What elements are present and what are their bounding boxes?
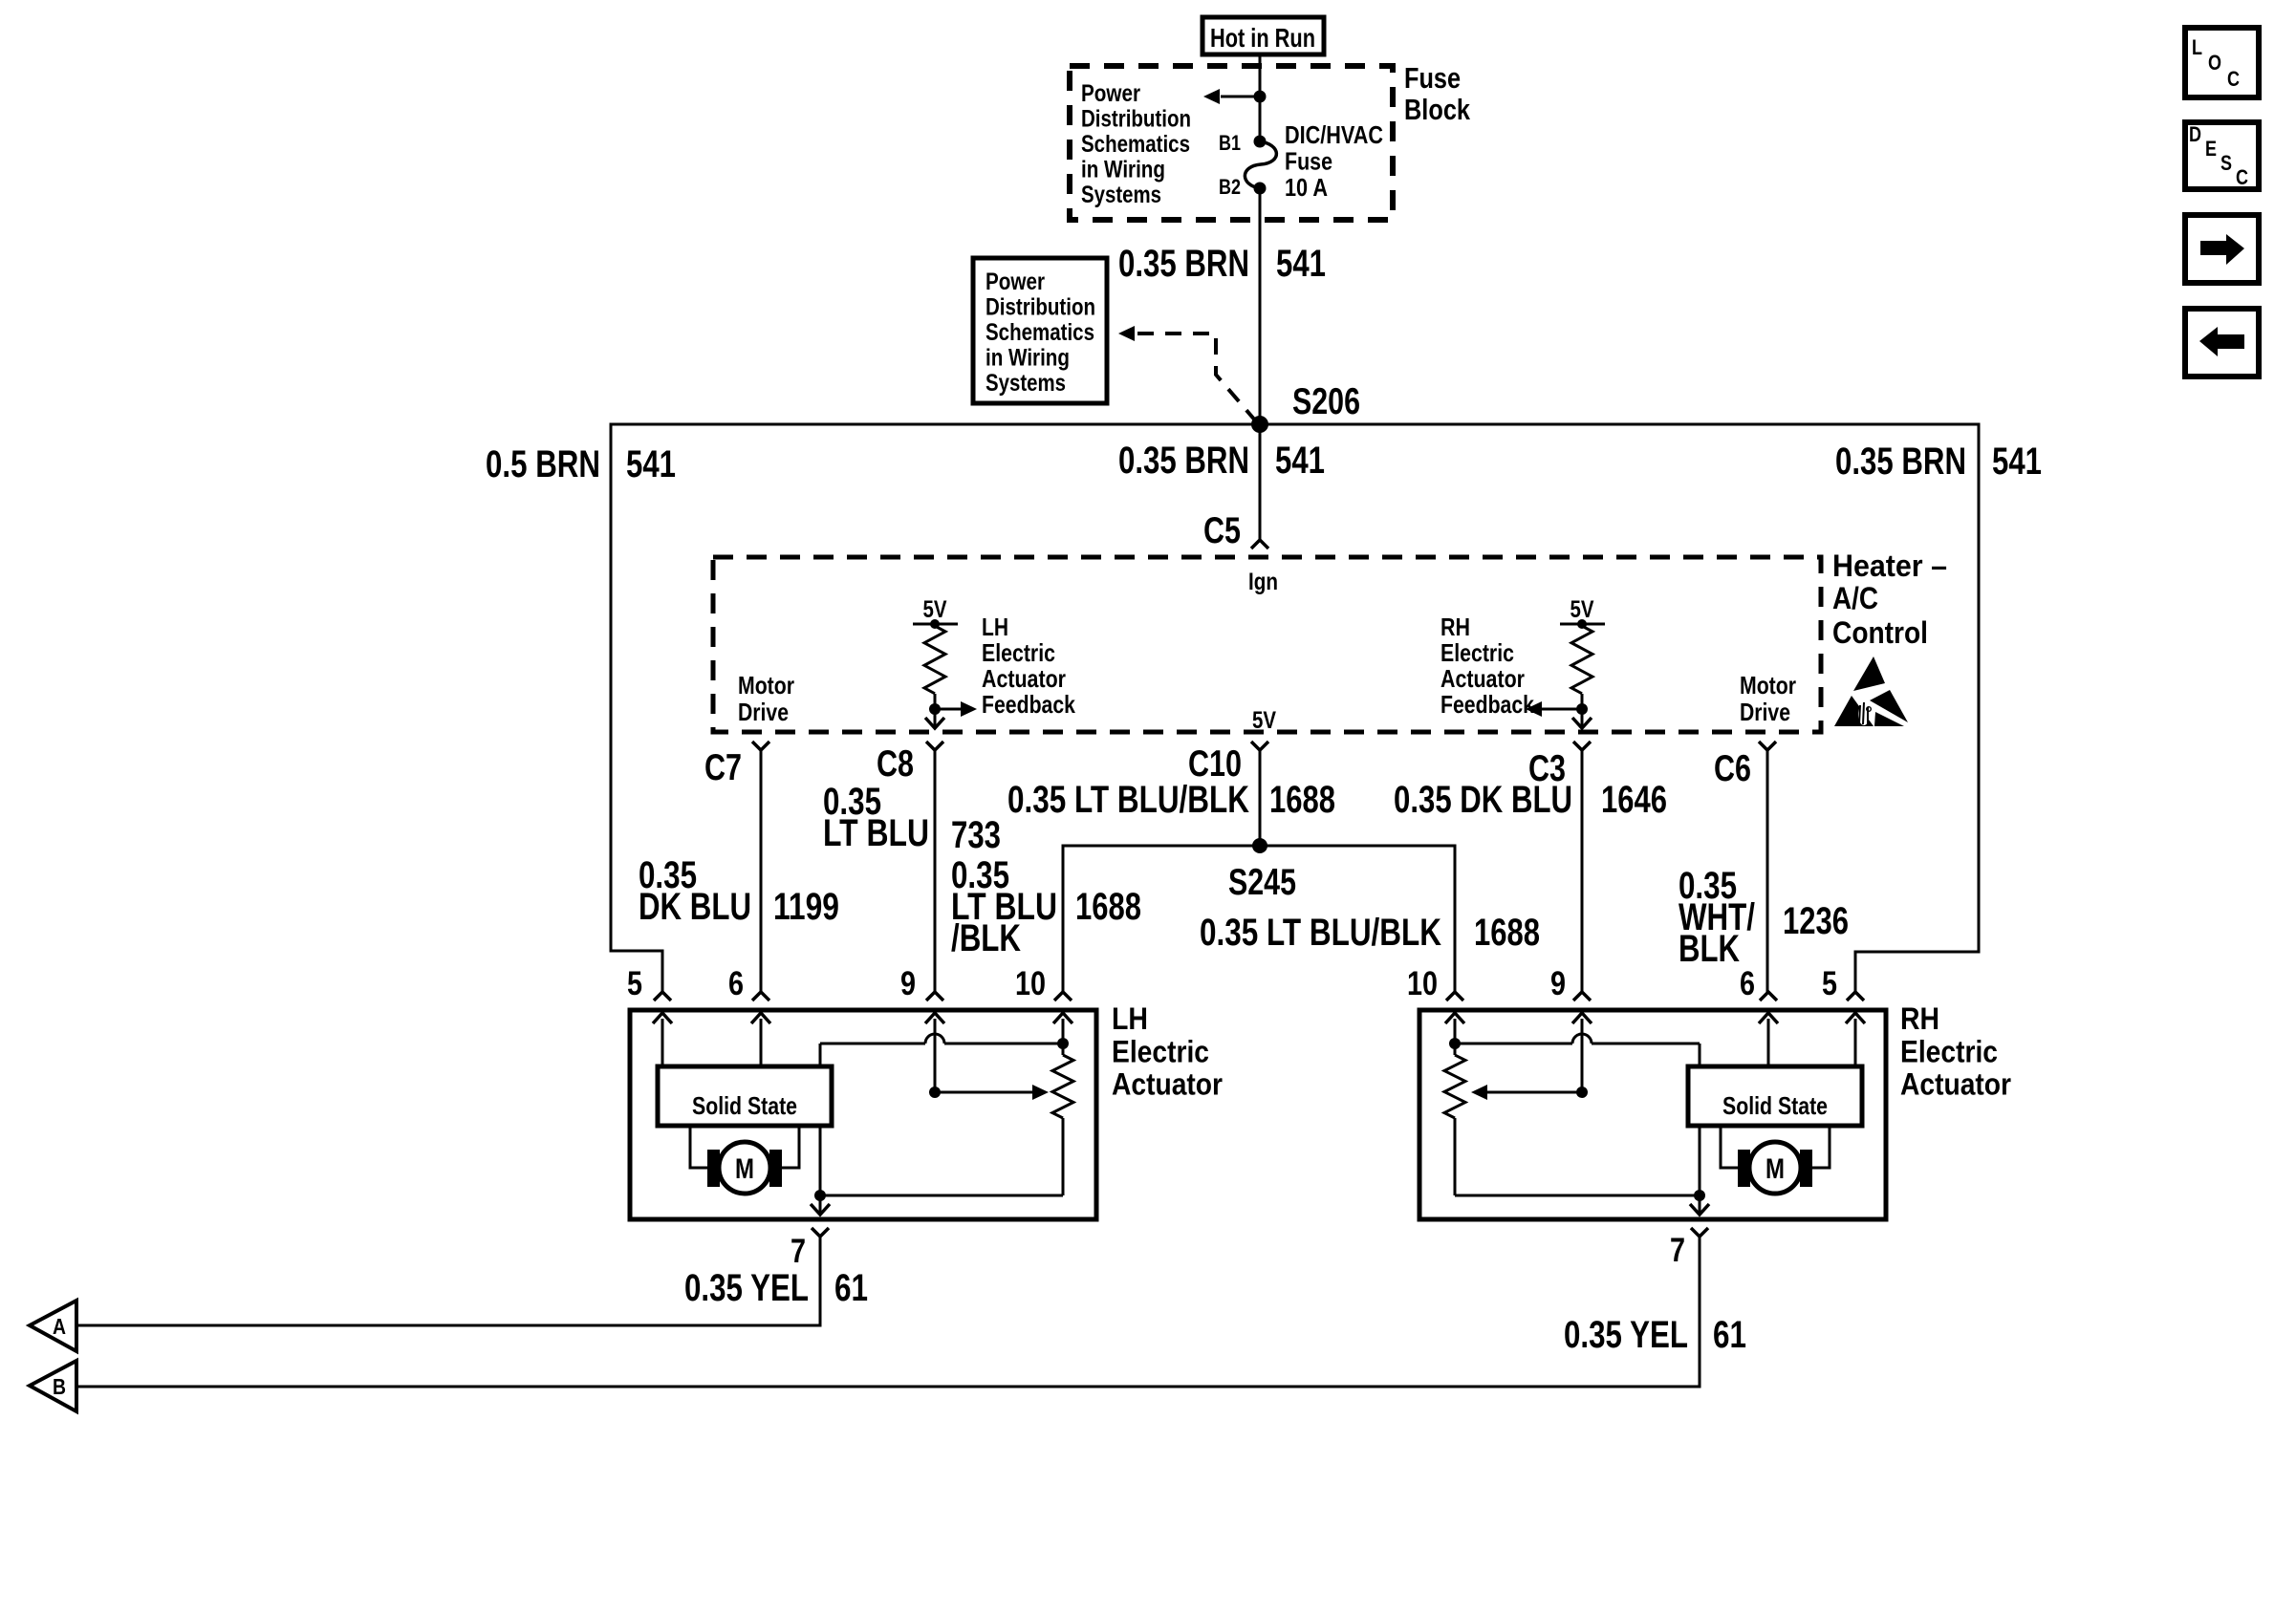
- svg-text:Solid State: Solid State: [1722, 1091, 1828, 1120]
- Solid State box LH: [658, 1066, 832, 1126]
- pin 9 chevron at x1655: [1573, 992, 1591, 1001]
- junction + arrow RH feedback: [1526, 701, 1588, 717]
- svg-text:Feedback: Feedback: [1440, 690, 1534, 719]
- wire pin10 link to solid state LH: [820, 1034, 1069, 1066]
- nav icon LOC: [2185, 28, 2259, 97]
- fuse block dashed outline: [1070, 66, 1393, 220]
- svg-text:in Wiring: in Wiring: [986, 345, 1070, 372]
- svg-text:Drive: Drive: [738, 698, 789, 726]
- svg-text:0.35 LT BLU/BLK: 0.35 LT BLU/BLK: [1007, 779, 1249, 821]
- svg-text:B1: B1: [1219, 131, 1241, 155]
- circuit number 541 (center): [1275, 440, 1325, 482]
- wire solid state to motor LH left: [690, 1126, 707, 1168]
- pin number 9 label: [1550, 965, 1566, 1002]
- label RH Electric Actuator: [1900, 1001, 2011, 1102]
- svg-text:1236: 1236: [1783, 900, 1849, 942]
- svg-text:6: 6: [728, 965, 744, 1002]
- label LH Electric Actuator Feedback: [982, 613, 1075, 719]
- svg-text:61: 61: [1713, 1314, 1746, 1356]
- svg-text:S245: S245: [1228, 862, 1296, 903]
- circuit number 1646: [1601, 779, 1667, 821]
- wire Hot in Run to fuse block: [1259, 54, 1262, 141]
- fuse DIC/HVAC 10A: [1245, 120, 1383, 202]
- circuit number 541 (left): [626, 443, 676, 485]
- wire label 0.35 BRN: [1118, 243, 1249, 285]
- resistor LH position sensor: [1052, 1044, 1073, 1195]
- motor M RH: [1738, 1142, 1812, 1194]
- svg-text:C: C: [2227, 67, 2240, 91]
- arrow into pin 10 RH (to resistor): [1445, 1013, 1464, 1044]
- wire solid state to motor RH left: [1721, 1126, 1738, 1168]
- svg-text:C: C: [2236, 165, 2248, 189]
- svg-text:Distribution: Distribution: [1081, 106, 1191, 133]
- pin 9 chevron at x978: [926, 992, 943, 1001]
- svg-text:Schematics: Schematics: [1081, 131, 1190, 158]
- circuit number 1199: [773, 886, 839, 928]
- svg-text:E: E: [2205, 137, 2217, 161]
- RH Electric Actuator box: [1419, 1010, 1886, 1219]
- pin number 10 label: [1015, 965, 1046, 1002]
- svg-text:1688: 1688: [1474, 912, 1540, 954]
- wire to power distribution with arrow: [1203, 89, 1267, 104]
- svg-text:541: 541: [1276, 243, 1326, 285]
- wire C7 to pin 6 (0.35 DK BLU 1199): [760, 750, 763, 992]
- svg-text:in Wiring: in Wiring: [1081, 157, 1165, 183]
- svg-text:10 A: 10 A: [1285, 173, 1328, 202]
- splice S206: [1251, 416, 1268, 433]
- svg-text:DIC/HVAC: DIC/HVAC: [1285, 120, 1383, 149]
- pin B1: [1219, 131, 1267, 155]
- nav icon previous page: [2185, 309, 2259, 377]
- svg-text:S: S: [2220, 151, 2232, 175]
- svg-text:9: 9: [1550, 965, 1566, 1002]
- svg-text:Ign: Ign: [1248, 569, 1278, 595]
- power feed label Hot in Run: [1202, 17, 1324, 54]
- pin number 7 RH: [1670, 1232, 1685, 1269]
- svg-text:5V: 5V: [1570, 596, 1594, 623]
- wire label 0.35 LT BLU/BLK (pin10 RH): [1200, 912, 1441, 954]
- arrow into pin 6 RH: [1759, 1013, 1778, 1066]
- svg-text:Electric: Electric: [1112, 1034, 1209, 1068]
- connector B: [30, 1361, 76, 1411]
- circuit number 61 (LH): [834, 1267, 868, 1309]
- connector C7: [704, 742, 769, 788]
- circuit number 541 (right): [1992, 441, 2042, 483]
- splice S245: [1252, 838, 1267, 853]
- pin 10 chevron at x1112: [1054, 992, 1072, 1001]
- svg-text:LH: LH: [982, 613, 1008, 641]
- wire label 0.5 BRN: [486, 443, 600, 485]
- Solid State box RH: [1688, 1066, 1862, 1126]
- circuit number 1688 (pin10 LH): [1075, 886, 1141, 928]
- svg-text:Fuse: Fuse: [1404, 61, 1461, 95]
- arrow into pin 9 RH (to wiper): [1572, 1013, 1592, 1092]
- svg-text:61: 61: [834, 1267, 868, 1309]
- svg-text:0.35 BRN: 0.35 BRN: [1118, 440, 1249, 482]
- svg-text:0.35 YEL: 0.35 YEL: [1564, 1314, 1688, 1356]
- wire LH feedback to C8: [925, 709, 944, 728]
- svg-text:Control: Control: [1832, 615, 1928, 650]
- wire motor return RH: [1455, 1126, 1705, 1201]
- pin number 9 label: [900, 965, 916, 1002]
- 5V supply bar LH: [913, 619, 958, 629]
- svg-text:Feedback: Feedback: [982, 690, 1075, 719]
- label 5V (RH feedback): [1570, 596, 1594, 623]
- wire label 0.35 DK BLU (pin6 LH): [639, 854, 751, 928]
- pin number 5 label: [1822, 965, 1837, 1002]
- wire label 0.35 LT BLU/BLK (pin10 LH): [951, 854, 1057, 959]
- junction + arrow LH feedback: [929, 701, 977, 717]
- svg-text:/BLK: /BLK: [951, 917, 1021, 959]
- arrow into pin 5 LH: [653, 1013, 672, 1066]
- LH Electric Actuator box: [630, 1010, 1096, 1219]
- label Heater - A/C Control: [1832, 549, 1947, 650]
- svg-text:Heater –: Heater –: [1832, 549, 1947, 583]
- pin 7 chevron LH: [812, 1228, 829, 1237]
- svg-text:Power: Power: [986, 269, 1045, 295]
- svg-text:Block: Block: [1404, 93, 1471, 126]
- svg-text:Actuator: Actuator: [1112, 1067, 1223, 1102]
- svg-text:Actuator: Actuator: [982, 664, 1066, 693]
- wire 0.35 BRN 541 right branch: [1260, 424, 1979, 992]
- svg-text:Systems: Systems: [986, 370, 1066, 397]
- svg-text:1646: 1646: [1601, 779, 1667, 821]
- arrow into pin 5 RH: [1846, 1013, 1865, 1066]
- wire label 0.35 BRN (right): [1835, 441, 1966, 483]
- svg-text:M: M: [1765, 1153, 1785, 1185]
- svg-text:541: 541: [626, 443, 676, 485]
- pin number 7 LH: [791, 1233, 806, 1270]
- connector A: [30, 1301, 76, 1351]
- arrow into pin 10 LH (to resistor): [1053, 1013, 1072, 1044]
- wire 0.5 BRN 541 left branch: [611, 424, 1260, 992]
- wire solid state to motor RH right: [1812, 1126, 1830, 1168]
- svg-text:5V: 5V: [923, 596, 947, 623]
- svg-text:1688: 1688: [1269, 779, 1335, 821]
- svg-text:0.35 BRN: 0.35 BRN: [1835, 441, 1966, 483]
- wiper arrow RH: [1471, 1085, 1588, 1100]
- svg-text:C5: C5: [1203, 510, 1241, 551]
- pin label Ign: [1248, 569, 1278, 595]
- svg-text:Systems: Systems: [1081, 182, 1161, 208]
- pin number 6 label: [1740, 965, 1755, 1002]
- svg-text:Schematics: Schematics: [986, 319, 1094, 346]
- svg-text:Solid State: Solid State: [692, 1091, 797, 1120]
- circuit number 1688 (pin10 RH): [1474, 912, 1540, 954]
- svg-text:DK BLU: DK BLU: [639, 886, 751, 928]
- note power distribution schematics in wiring systems (fuse block): [1081, 80, 1191, 208]
- connector C6: [1714, 742, 1776, 789]
- svg-text:6: 6: [1740, 965, 1755, 1002]
- circuit number 733: [951, 814, 1001, 856]
- svg-text:LH: LH: [1112, 1001, 1148, 1036]
- pin 10 chevron at x1522: [1446, 992, 1463, 1001]
- label Motor Drive LH: [738, 671, 794, 726]
- svg-text:541: 541: [1992, 441, 2042, 483]
- svg-text:7: 7: [1670, 1232, 1685, 1269]
- svg-text:Electric: Electric: [1440, 638, 1514, 667]
- wire C8 to pin 9 (0.35 LT BLU 733): [934, 750, 937, 992]
- svg-text:B: B: [53, 1374, 66, 1399]
- svg-text:733: 733: [951, 814, 1001, 856]
- svg-text:9: 9: [900, 965, 916, 1002]
- ESD sensitive device symbol: [1834, 656, 1908, 726]
- svg-text:7: 7: [791, 1233, 806, 1270]
- svg-text:B2: B2: [1219, 175, 1241, 199]
- wire C6 to pin 6 RH (0.35 WHT/BLK 1236): [1766, 750, 1769, 992]
- label S206: [1292, 381, 1360, 422]
- svg-text:Hot in Run: Hot in Run: [1210, 23, 1315, 53]
- pin 6 chevron at x796: [752, 992, 769, 1001]
- wire motor return LH: [814, 1126, 1063, 1201]
- wire S245 bus to RH pin 10: [1260, 846, 1455, 992]
- svg-text:0.35 YEL: 0.35 YEL: [684, 1267, 809, 1309]
- arrow out pin 7 LH: [811, 1195, 830, 1215]
- svg-text:S206: S206: [1292, 381, 1360, 422]
- svg-text:5: 5: [627, 965, 642, 1002]
- arrow into pin 9 LH (to wiper): [925, 1013, 944, 1092]
- wire C10 to S245: [1259, 750, 1262, 846]
- pin label 5V (C10): [1252, 707, 1276, 734]
- svg-text:541: 541: [1275, 440, 1325, 482]
- svg-text:C7: C7: [704, 747, 742, 788]
- svg-text:Fuse: Fuse: [1285, 147, 1332, 176]
- wire 0.35 YEL 61 (LH) to A: [77, 1237, 820, 1325]
- svg-text:5: 5: [1822, 965, 1837, 1002]
- resistor RH position sensor: [1444, 1044, 1465, 1195]
- svg-text:L: L: [2192, 35, 2202, 59]
- svg-text:10: 10: [1407, 965, 1438, 1002]
- svg-text:C8: C8: [877, 743, 914, 785]
- svg-text:M: M: [735, 1153, 754, 1185]
- label 5V (LH feedback): [923, 596, 947, 623]
- motor M LH: [707, 1142, 782, 1194]
- wire label 0.35 BRN (center): [1118, 440, 1249, 482]
- connector label C5: [1203, 510, 1241, 551]
- connector C8: [877, 742, 943, 785]
- wire RH feedback to C3: [1572, 709, 1592, 728]
- pin number 10 label: [1407, 965, 1438, 1002]
- resistor LH feedback divider: [924, 626, 945, 709]
- 5V supply bar RH: [1560, 619, 1605, 629]
- svg-text:Actuator: Actuator: [1440, 664, 1525, 693]
- svg-text:D: D: [2189, 122, 2201, 146]
- circuit number 1688 (C10): [1269, 779, 1335, 821]
- svg-text:1199: 1199: [773, 886, 839, 928]
- nav icon DESC: [2185, 122, 2259, 189]
- circuit number 1236: [1783, 900, 1849, 942]
- arrow into pin 6 LH: [751, 1013, 770, 1066]
- svg-text:Distribution: Distribution: [986, 294, 1095, 321]
- note box power distribution schematics in wiring systems: [973, 258, 1107, 403]
- label Fuse Block: [1404, 61, 1471, 126]
- wire pin10 link to solid state RH: [1449, 1034, 1700, 1066]
- wire 0.35 BRN 541 to C5: [1251, 424, 1268, 549]
- svg-text:Electric: Electric: [982, 638, 1055, 667]
- svg-text:5V: 5V: [1252, 707, 1276, 734]
- svg-text:C6: C6: [1714, 748, 1751, 789]
- wire label 0.35 DK BLU (C3): [1394, 779, 1572, 821]
- svg-text:A/C: A/C: [1832, 581, 1878, 615]
- wire fuse to S206 (0.35 BRN 541): [1259, 188, 1262, 424]
- svg-text:Drive: Drive: [1740, 698, 1790, 726]
- pin 5 chevron at x1941: [1847, 992, 1864, 1001]
- label S245: [1228, 862, 1296, 903]
- wire label 0.35 YEL (RH): [1564, 1314, 1688, 1356]
- svg-text:Actuator: Actuator: [1900, 1067, 2011, 1102]
- nav icon next page: [2185, 215, 2259, 283]
- wire solid state to motor LH right: [782, 1126, 799, 1168]
- svg-text:Motor: Motor: [738, 671, 794, 699]
- pin number 6 label: [728, 965, 744, 1002]
- wire C3 to pin 9 RH (0.35 DK BLU 1646): [1581, 750, 1584, 992]
- label RH Electric Actuator Feedback: [1440, 613, 1534, 719]
- circuit number 541: [1276, 243, 1326, 285]
- arrow out pin 7 RH: [1690, 1195, 1709, 1215]
- svg-text:A: A: [53, 1314, 66, 1339]
- svg-text:10: 10: [1015, 965, 1046, 1002]
- svg-text:Motor: Motor: [1740, 671, 1796, 699]
- svg-text:LT BLU: LT BLU: [823, 812, 929, 854]
- Heater A/C Control dashed outline: [713, 557, 1821, 732]
- svg-text:BLK: BLK: [1679, 928, 1740, 970]
- wire label 0.35 YEL (LH): [684, 1267, 809, 1309]
- label Motor Drive RH: [1740, 671, 1796, 726]
- svg-text:0.5 BRN: 0.5 BRN: [486, 443, 600, 485]
- wire 0.35 YEL 61 (RH) to B: [77, 1237, 1700, 1387]
- pin B2: [1219, 175, 1267, 199]
- circuit number 61 (RH): [1713, 1314, 1746, 1356]
- svg-text:Electric: Electric: [1900, 1034, 1998, 1068]
- pin 6 chevron at x1850: [1760, 992, 1777, 1001]
- svg-text:0.35 BRN: 0.35 BRN: [1118, 243, 1249, 285]
- dashed arrow from S206 to note box: [1118, 326, 1256, 421]
- svg-text:RH: RH: [1900, 1001, 1939, 1036]
- connector C10: [1188, 742, 1268, 785]
- wire label 0.35 LT BLU: [823, 781, 929, 854]
- pin 7 chevron RH: [1691, 1228, 1708, 1237]
- wire label 0.35 LT BLU/BLK (C10): [1007, 779, 1249, 821]
- svg-text:RH: RH: [1440, 613, 1470, 641]
- svg-text:O: O: [2208, 51, 2221, 75]
- label LH Electric Actuator: [1112, 1001, 1223, 1102]
- svg-text:0.35 DK BLU: 0.35 DK BLU: [1394, 779, 1572, 821]
- resistor RH feedback divider: [1571, 626, 1592, 709]
- svg-text:1688: 1688: [1075, 886, 1141, 928]
- svg-text:Power: Power: [1081, 80, 1140, 107]
- connector C3: [1528, 742, 1591, 789]
- pin 5 chevron at x693: [654, 992, 671, 1001]
- wire label 0.35 WHT/BLK (pin6 RH): [1679, 865, 1755, 970]
- wiper arrow LH: [929, 1085, 1049, 1100]
- svg-text:0.35 LT BLU/BLK: 0.35 LT BLU/BLK: [1200, 912, 1441, 954]
- pin number 5 label: [627, 965, 642, 1002]
- wire S245 bus to LH pin 10: [1063, 846, 1260, 992]
